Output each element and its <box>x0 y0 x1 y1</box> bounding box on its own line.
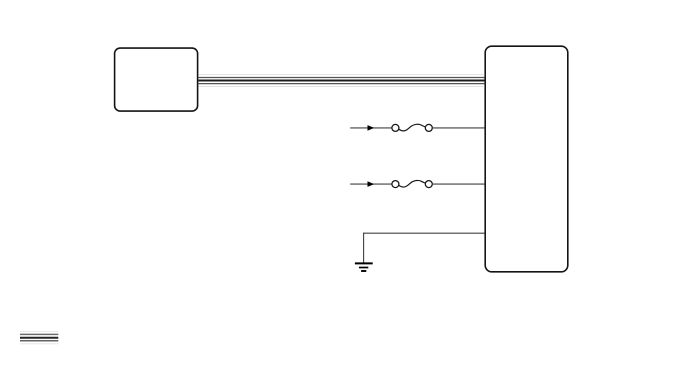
wire (bus faint lower hairline) <box>198 86 484 88</box>
fuse F1 wavy element <box>399 124 426 131</box>
cable legend mark (bottom left) <box>20 331 58 343</box>
fuse F1 terminal circle right <box>425 124 432 131</box>
wire (bus line 3) <box>198 83 484 85</box>
wire (bus line 1) <box>198 77 484 79</box>
fuse F2 terminal circle right <box>425 181 432 188</box>
module (right main unit) <box>485 46 568 272</box>
wire (fuse feed 1, right segment to main unit) <box>432 127 484 129</box>
wire (fuse feed 2, left segment) <box>350 183 391 185</box>
arrow (power feed 2) <box>368 181 375 187</box>
arrow (power feed 1) <box>368 125 375 131</box>
fuse F2 wavy element <box>399 180 426 187</box>
wire (bus line 2, thick) <box>198 80 484 82</box>
fuse F2 terminal circle left <box>392 181 399 188</box>
wire (ground drop) <box>363 233 365 263</box>
wire (ground horizontal run) <box>363 232 485 234</box>
ground symbol <box>355 263 373 271</box>
fuse F1 terminal circle left <box>392 124 399 131</box>
wire (fuse feed 2, right segment to main unit) <box>432 183 484 185</box>
module (left control unit) <box>115 48 198 111</box>
wire (bus faint upper hairline) <box>198 74 484 76</box>
wire (fuse feed 1, left segment) <box>350 127 391 129</box>
